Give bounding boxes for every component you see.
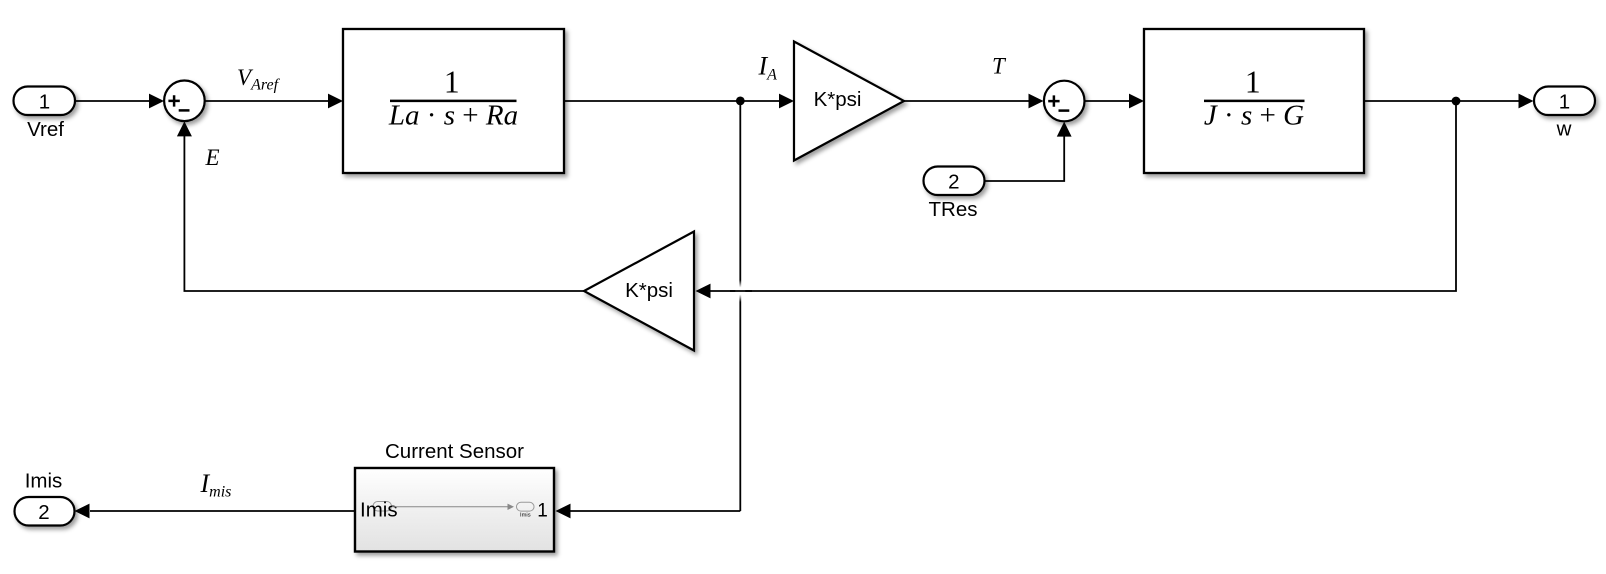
sum junction Sum1: [164, 81, 205, 122]
svg-text:La · s + Ra: La · s + Ra: [388, 100, 518, 132]
svg-text:E: E: [205, 145, 220, 170]
svg-text:J · s + G: J · s + G: [1204, 100, 1304, 132]
transfer function block TF1 1/(La·s+Ra): [343, 29, 564, 173]
sum junction Sum2: [1044, 81, 1085, 122]
svg-text:2: 2: [38, 501, 49, 524]
inport 1 Vref: [14, 87, 76, 141]
wire Vref to Sum1: [75, 94, 164, 109]
inner preview: inport icon: [373, 502, 392, 512]
svg-text:w: w: [1556, 118, 1572, 141]
wire TF1 to Gain1: [564, 94, 794, 109]
subsystem Current Sensor: [355, 440, 554, 552]
wire Current Sensor to outport Imis: [75, 504, 356, 519]
inner preview: wire: [392, 506, 508, 508]
svg-text:K*psi: K*psi: [625, 279, 673, 302]
node w junction dot: [1452, 97, 1461, 106]
outport 1 w: [1534, 87, 1595, 141]
wire Sum1 to TF1: [205, 94, 343, 109]
svg-text:1: 1: [1559, 90, 1570, 113]
node IA junction dot: [736, 97, 745, 106]
svg-text:1: 1: [444, 65, 460, 100]
wire IA node down to Current Sensor (with gap at crossing): [556, 101, 746, 518]
wire w node down to Gain2: [696, 101, 1457, 298]
inner preview: outport icon: [517, 502, 535, 511]
wire Gain2 to Sum1 (feedback E): [177, 121, 584, 291]
wire Gain1 to Sum2: [904, 94, 1044, 109]
svg-text:1: 1: [537, 501, 548, 522]
wire feedback overdraw at crossing: [730, 290, 752, 292]
svg-text:Current Sensor: Current Sensor: [385, 440, 524, 463]
svg-text:1: 1: [1245, 65, 1261, 100]
svg-text:Vref: Vref: [27, 118, 64, 141]
svg-text:1: 1: [39, 90, 50, 113]
wire TF2 to outport w: [1364, 94, 1534, 109]
wire TRes to Sum2: [985, 122, 1072, 181]
svg-text:Imis: Imis: [520, 512, 531, 518]
svg-text:2: 2: [948, 170, 959, 193]
svg-text:T: T: [992, 53, 1007, 78]
wire Sum2 to TF2: [1085, 94, 1145, 109]
svg-text:K*psi: K*psi: [814, 88, 862, 111]
outport 2 Imis: [15, 469, 75, 525]
svg-text:Imis: Imis: [360, 499, 398, 522]
inport 2 TRes: [924, 167, 985, 222]
gain Gain1 K*psi: [794, 42, 904, 161]
svg-text:Imis: Imis: [25, 469, 63, 492]
transfer function block TF2 1/(J·s+G): [1144, 29, 1364, 173]
svg-text:TRes: TRes: [929, 198, 978, 221]
gain Gain2 K*psi (left pointing): [584, 232, 694, 351]
